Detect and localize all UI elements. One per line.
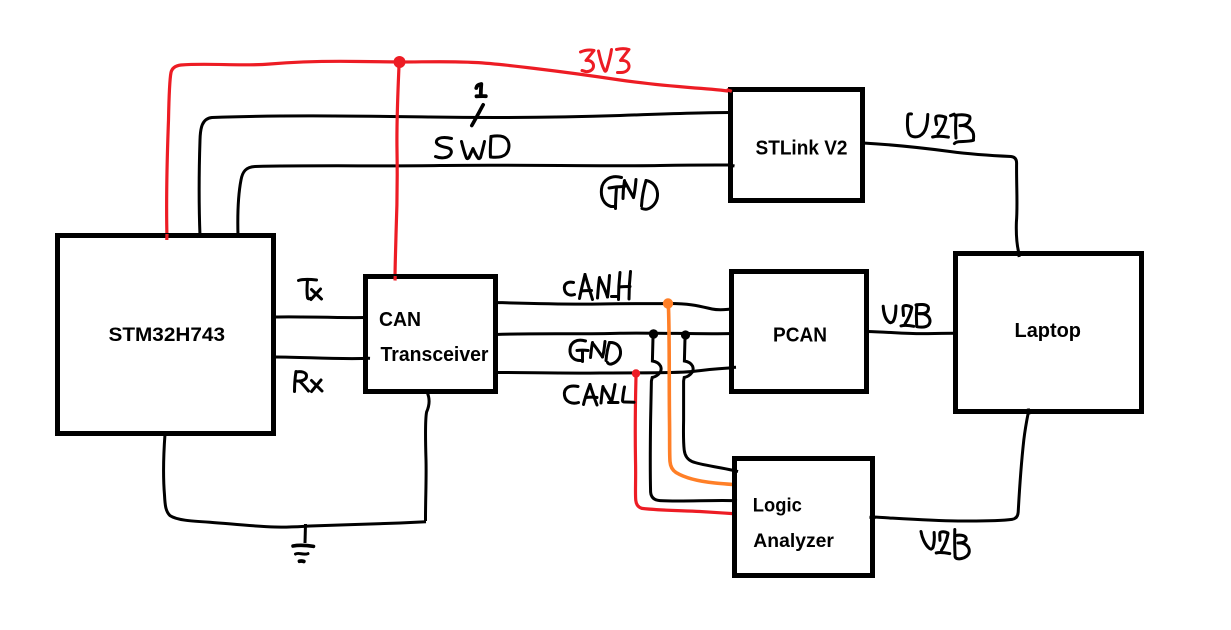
svg-text:STLink V2: STLink V2 (756, 138, 848, 160)
svg-text:CAN: CAN (379, 309, 421, 331)
svg-text:Laptop: Laptop (1015, 320, 1082, 342)
svg-text:PCAN: PCAN (773, 325, 827, 347)
svg-text:Transceiver: Transceiver (381, 344, 489, 366)
svg-text:Logic: Logic (753, 496, 802, 517)
svg-text:Analyzer: Analyzer (753, 531, 834, 552)
svg-text:STM32H743: STM32H743 (109, 324, 226, 346)
